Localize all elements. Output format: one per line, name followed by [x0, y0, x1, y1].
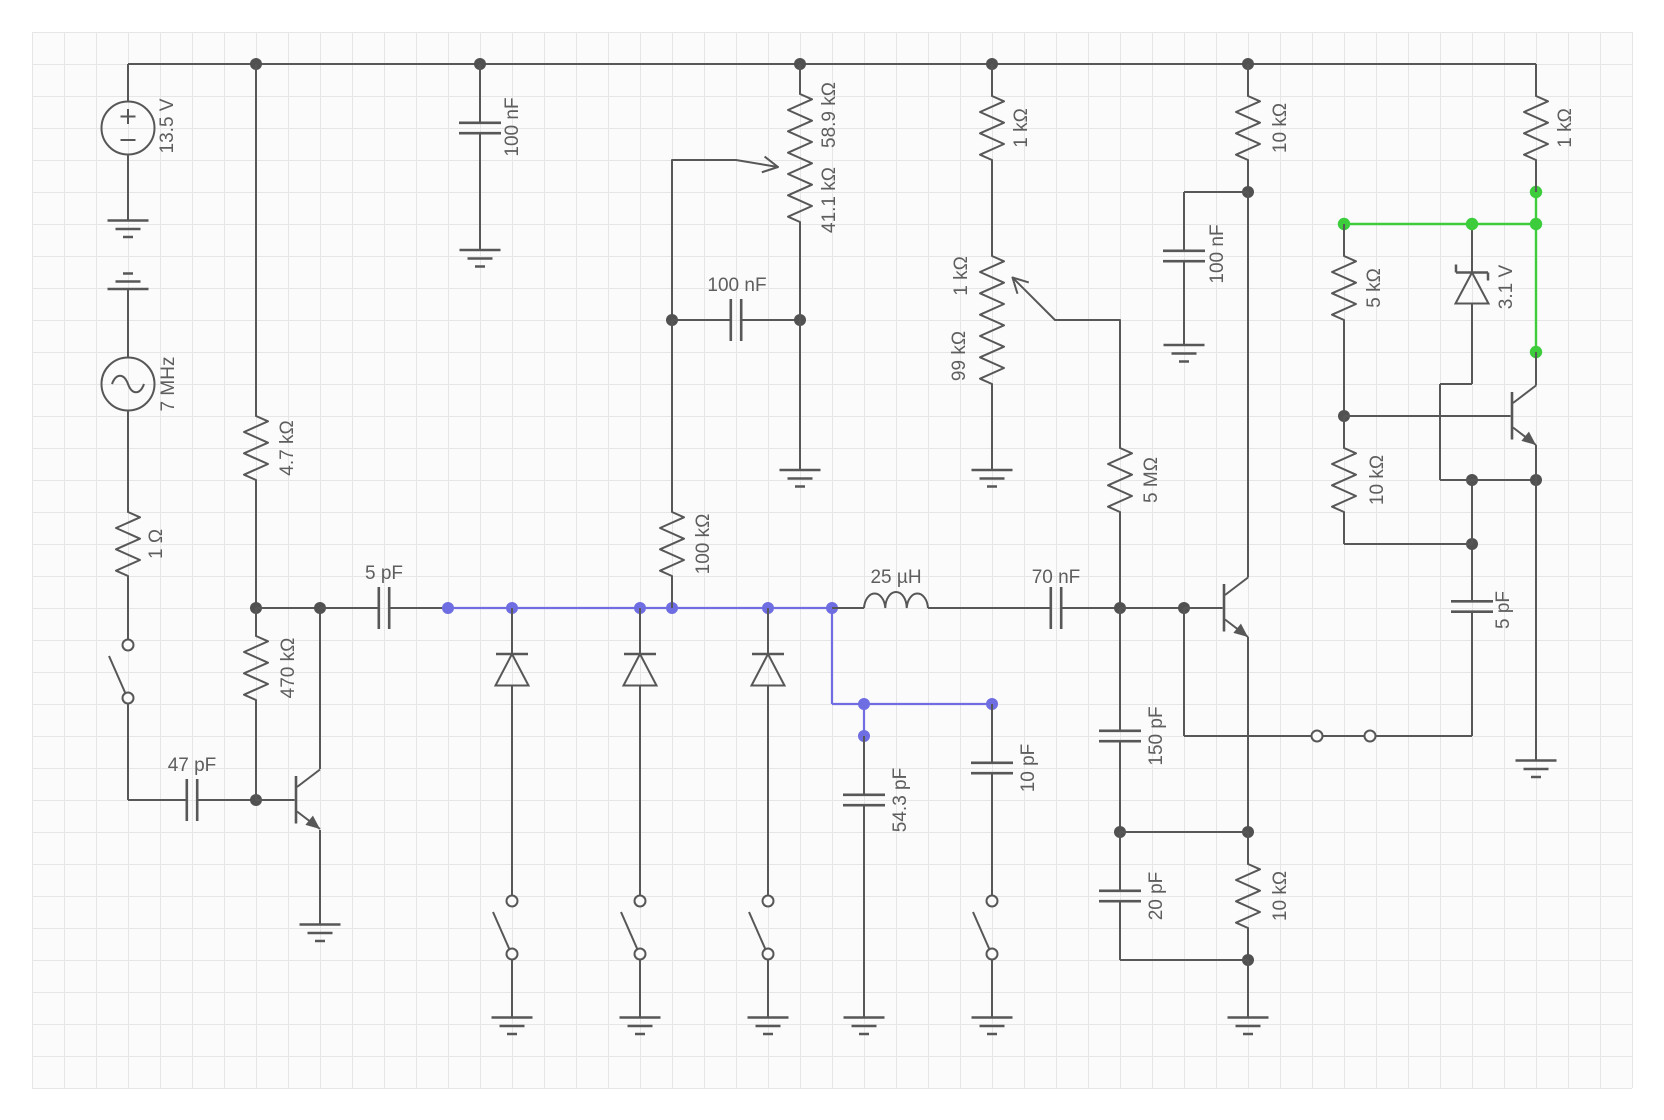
wire D1 cathode lead	[511, 608, 513, 654]
wire R3 to base node	[255, 700, 257, 800]
diode D1	[496, 654, 529, 686]
resistor R8 10 kΩ	[1236, 864, 1291, 928]
wire POT1 wiper to node H	[671, 160, 673, 320]
wire rail to R7	[1247, 64, 1249, 96]
resistor R6 5 MΩ	[1108, 448, 1162, 512]
svg-text:5 pF: 5 pF	[1493, 591, 1514, 629]
resistor R2 4.7 kΩ	[244, 416, 298, 480]
svg-text:100 nF: 100 nF	[502, 97, 523, 156]
junction node node Q	[1242, 954, 1254, 966]
junction node node B	[250, 602, 262, 614]
ground GND14	[1516, 761, 1557, 778]
resistor R11 1 kΩ	[1524, 96, 1576, 160]
wire node R to node P	[1120, 831, 1248, 833]
wire node R to C9	[1119, 832, 1121, 891]
inductor L1 25 µH	[864, 567, 928, 608]
switch SW4 (open)	[749, 896, 774, 960]
wire rail to C2	[479, 64, 481, 123]
svg-text:5 kΩ: 5 kΩ	[1364, 268, 1385, 308]
svg-text:150 pF: 150 pF	[1146, 706, 1167, 765]
svg-text:5 pF: 5 pF	[365, 563, 403, 584]
wire V2 to R1	[127, 411, 129, 513]
wire D3 anode to SW4	[767, 686, 769, 896]
wire blue net lower horizontal	[832, 703, 992, 705]
wire C2 to GND4	[479, 133, 481, 250]
svg-text:100 nF: 100 nF	[1207, 224, 1228, 283]
voltage source V1 13.5 V	[102, 98, 179, 154]
blue net node x=512	[506, 602, 518, 614]
wire SW5 to GND13	[991, 960, 993, 1018]
capacitor C9 20 pF	[1099, 872, 1167, 921]
wire to C1	[128, 799, 187, 801]
wire R7 to node O	[1247, 160, 1249, 192]
switch SW6 (closed)	[1312, 731, 1376, 742]
diode D3	[752, 654, 785, 686]
ground GND1	[108, 221, 149, 238]
wire L1 to C5	[928, 607, 1051, 609]
ground GND4	[460, 250, 501, 267]
wire blue node G to C6	[863, 736, 865, 795]
junction node node M	[1178, 602, 1190, 614]
junction node node O	[1242, 186, 1254, 198]
resistor R10 10 kΩ	[1332, 448, 1388, 512]
ground GND12	[844, 1018, 885, 1035]
wire R4 to blue net	[671, 576, 673, 608]
junction node base node Q1	[250, 794, 262, 806]
junction node rail node N	[1242, 58, 1254, 70]
wire blue node F to C7	[991, 704, 993, 763]
junction node rail node K	[986, 58, 998, 70]
wire C8 to node R	[1119, 741, 1121, 832]
ground GND2 (flipped)	[108, 274, 149, 290]
wire rail right corner	[1535, 64, 1537, 96]
wire output row	[1184, 735, 1472, 737]
svg-text:20 pF: 20 pF	[1146, 872, 1167, 921]
capacitor C11 5 pF	[1451, 591, 1514, 629]
svg-text:10 kΩ: 10 kΩ	[1270, 103, 1291, 153]
green net node X	[1530, 218, 1542, 230]
wire Q2 emitter to node P	[1247, 637, 1249, 832]
wire rail to R5	[991, 64, 993, 96]
wire base of Q1	[256, 799, 295, 801]
junction node node U	[1530, 474, 1542, 486]
resistor POT1 upper half 58.9 kΩ	[788, 82, 840, 158]
green net node Y	[1530, 186, 1542, 198]
transistor Q1 (NPN)	[296, 770, 320, 830]
wire node D to C3	[320, 607, 379, 609]
green net node V	[1338, 218, 1350, 230]
svg-text:1 kΩ: 1 kΩ	[1555, 108, 1576, 148]
capacitor C8 150 pF	[1099, 706, 1167, 765]
svg-text:1 kΩ: 1 kΩ	[1011, 108, 1032, 148]
wire D3 cathode lead	[767, 608, 769, 654]
wire C5 to node L	[1061, 607, 1120, 609]
potentiometer wiper arrow POT2	[1013, 278, 1121, 321]
junction node node H	[666, 314, 678, 326]
AC source V2 7 MHz	[102, 357, 180, 412]
wire node L to C8	[1119, 608, 1121, 731]
resistor R4 100 kΩ	[660, 512, 714, 576]
wire bottom link	[1120, 959, 1248, 961]
ground GND7	[748, 1018, 789, 1035]
resistor R5 1 kΩ	[980, 96, 1032, 160]
wire blue tuning net (horizontal)	[448, 607, 832, 609]
svg-text:3.1 V: 3.1 V	[1496, 264, 1517, 309]
svg-text:58.9 kΩ: 58.9 kΩ	[819, 82, 840, 148]
wire C7 to SW5	[991, 773, 993, 895]
wire C4 to node I	[741, 319, 800, 321]
wire base of Q2	[1184, 607, 1223, 609]
junction node node S	[1466, 538, 1478, 550]
switch SW2 (open)	[493, 896, 518, 960]
wire node Q to GND11	[1247, 960, 1249, 1017]
wire green net horizontal	[1344, 223, 1536, 225]
svg-text:1 Ω: 1 Ω	[146, 529, 167, 559]
blue net node x=672	[666, 602, 678, 614]
wire R9 to node AA	[1343, 320, 1345, 416]
wire SW4 to ground	[767, 960, 769, 1018]
wire V1 negative lead	[127, 155, 129, 221]
wire C1 to node	[197, 799, 256, 801]
blue net node E	[858, 698, 870, 710]
junction node node L	[1114, 602, 1126, 614]
junction node rail node C	[474, 58, 486, 70]
wire R1 to SW1	[127, 576, 129, 640]
zener diode DZ1	[1456, 264, 1518, 309]
capacitor C6 54.3 pF	[843, 768, 911, 832]
junction node rail node A	[250, 58, 262, 70]
wire node AA to R10	[1343, 416, 1345, 448]
wire node I to GND8	[799, 320, 801, 470]
wire POT1 to node I	[799, 222, 801, 320]
switch SW5 (open)	[973, 896, 998, 960]
wire POT2 wiper to R6	[1119, 320, 1121, 448]
wire blue node to L1	[832, 607, 864, 609]
ground GND6	[620, 1018, 661, 1035]
blue net node x=832	[826, 602, 838, 614]
svg-text:10 kΩ: 10 kΩ	[1367, 455, 1388, 505]
diode D2	[624, 654, 657, 686]
wire C9 to node Q	[1119, 901, 1121, 960]
resistor POT2 upper half 1 kΩ	[951, 256, 1004, 320]
wire node P to R8	[1247, 832, 1249, 864]
capacitor C4 100 nF	[707, 275, 766, 341]
wire C10 to GND10	[1183, 261, 1185, 345]
wire blue net stub	[863, 704, 865, 736]
svg-text:100 nF: 100 nF	[707, 275, 766, 296]
resistor R7 10 kΩ	[1236, 96, 1291, 160]
wire Q1 emitter	[319, 830, 321, 924]
wire R11 to green node Y	[1535, 160, 1537, 192]
wire R5 to POT2	[991, 160, 993, 256]
wire jog vertical	[1439, 384, 1441, 480]
wire jog horizontal	[1440, 383, 1472, 385]
ground GND11	[1228, 1018, 1269, 1035]
wire Q1 collector	[319, 608, 321, 769]
wire node M to output row	[1183, 608, 1185, 736]
wire rail to POT1	[799, 64, 801, 94]
potentiometer wiper arrow POT1	[672, 157, 778, 173]
wire Q3 emitter to node U	[1535, 445, 1537, 480]
wire POT2 to GND9	[991, 384, 993, 470]
blue net node G	[858, 730, 870, 742]
green net node W	[1466, 218, 1478, 230]
wire D1 anode to SW2	[511, 686, 513, 896]
wire zener cathode lead	[1471, 224, 1473, 273]
svg-text:54.3 pF: 54.3 pF	[890, 768, 911, 832]
switch SW3 (open)	[621, 896, 646, 960]
switch SW1 (open)	[109, 640, 134, 704]
svg-text:7 MHz: 7 MHz	[158, 357, 179, 412]
junction node node P	[1242, 826, 1254, 838]
wire SW1 to C1 row	[127, 704, 129, 801]
resistor POT2 lower half 99 kΩ	[949, 320, 1004, 384]
svg-text:470 kΩ: 470 kΩ	[278, 638, 299, 699]
capacitor C1 47 pF	[168, 755, 217, 821]
svg-text:4.7 kΩ: 4.7 kΩ	[277, 420, 298, 475]
resistor R1 1 Ω	[116, 512, 167, 576]
junction node node D	[314, 602, 326, 614]
svg-text:25 µH: 25 µH	[870, 567, 921, 588]
transistor Q3 (NPN)	[1512, 386, 1536, 446]
wire C10 top lead	[1183, 192, 1185, 251]
junction node rail node J	[794, 58, 806, 70]
wire SW2 to ground	[511, 960, 513, 1018]
wire green node V to R9	[1343, 224, 1345, 256]
wire blue net vertical	[831, 608, 833, 704]
capacitor C10 100 nF	[1163, 224, 1228, 283]
blue net node x=768	[762, 602, 774, 614]
wire green net vertical	[1535, 192, 1537, 352]
wire SW3 to ground	[639, 960, 641, 1018]
wire node O to C10	[1184, 191, 1248, 193]
svg-text:1 kΩ: 1 kΩ	[951, 256, 972, 296]
wire C6 to GND12	[863, 805, 865, 1017]
ground GND3	[300, 925, 341, 942]
wire zener anode lead	[1471, 304, 1473, 385]
wire C11 to node S	[1471, 544, 1473, 601]
svg-text:100 kΩ: 100 kΩ	[693, 514, 714, 575]
svg-text:47 pF: 47 pF	[168, 755, 217, 776]
wire D2 anode to SW3	[639, 686, 641, 896]
wire node H to C4	[672, 319, 731, 321]
wire node S link	[1344, 543, 1472, 545]
resistor R3 470 kΩ	[244, 636, 299, 700]
wire top supply rail	[128, 63, 1536, 65]
capacitor C2 100 nF	[459, 97, 523, 156]
wire rail to R2	[255, 64, 257, 416]
ground GND8	[780, 470, 821, 487]
junction node node R	[1114, 826, 1126, 838]
wire R10 to link	[1343, 512, 1345, 544]
svg-text:99 kΩ: 99 kΩ	[949, 331, 970, 381]
wire node U to GND14	[1535, 480, 1537, 760]
wire R6 to node L	[1119, 512, 1121, 608]
capacitor C3 5 pF	[365, 563, 403, 629]
wire node H to R4	[671, 320, 673, 512]
wire node O to Q2 collector	[1247, 192, 1249, 578]
wire V1 positive lead	[127, 64, 129, 102]
blue net node x=640	[634, 602, 646, 614]
wire node B to node D	[256, 607, 320, 609]
wire node L to node M	[1120, 607, 1184, 609]
svg-text:41.1 kΩ: 41.1 kΩ	[819, 167, 840, 233]
wire D2 cathode lead	[639, 608, 641, 654]
wire node S to node T	[1471, 480, 1473, 544]
junction node node I	[794, 314, 806, 326]
ground GND10	[1164, 345, 1205, 362]
svg-text:10 kΩ: 10 kΩ	[1270, 871, 1291, 921]
junction node node T	[1466, 474, 1478, 486]
wire R2 to node B	[255, 480, 257, 608]
resistor POT1 lower half 41.1 kΩ	[788, 158, 840, 233]
transistor Q2 (NPN)	[1224, 578, 1248, 638]
wire output to C11	[1471, 612, 1473, 736]
resistor R9 5 kΩ	[1332, 256, 1385, 320]
green net node Z	[1530, 346, 1542, 358]
capacitor C5 70 nF	[1032, 567, 1081, 629]
svg-text:13.5 V: 13.5 V	[157, 98, 178, 153]
svg-text:5 MΩ: 5 MΩ	[1141, 457, 1162, 503]
ground GND5	[492, 1018, 533, 1035]
ground GND9	[972, 470, 1013, 487]
wire C3 to blue net	[389, 607, 448, 609]
wire Q3 collector	[1535, 352, 1537, 386]
svg-text:10 pF: 10 pF	[1018, 744, 1039, 793]
ground GND13	[972, 1018, 1013, 1035]
capacitor C7 10 pF	[971, 744, 1039, 793]
wire node T row	[1440, 479, 1536, 481]
wire base of Q3	[1344, 415, 1511, 417]
blue net node x=448	[442, 602, 454, 614]
wire node B to R3	[255, 608, 257, 636]
svg-text:70 nF: 70 nF	[1032, 567, 1081, 588]
wire R8 to node Q	[1247, 928, 1249, 960]
junction node node AA	[1338, 410, 1350, 422]
wire GND2 to V2	[127, 289, 129, 358]
blue net node F	[986, 698, 998, 710]
